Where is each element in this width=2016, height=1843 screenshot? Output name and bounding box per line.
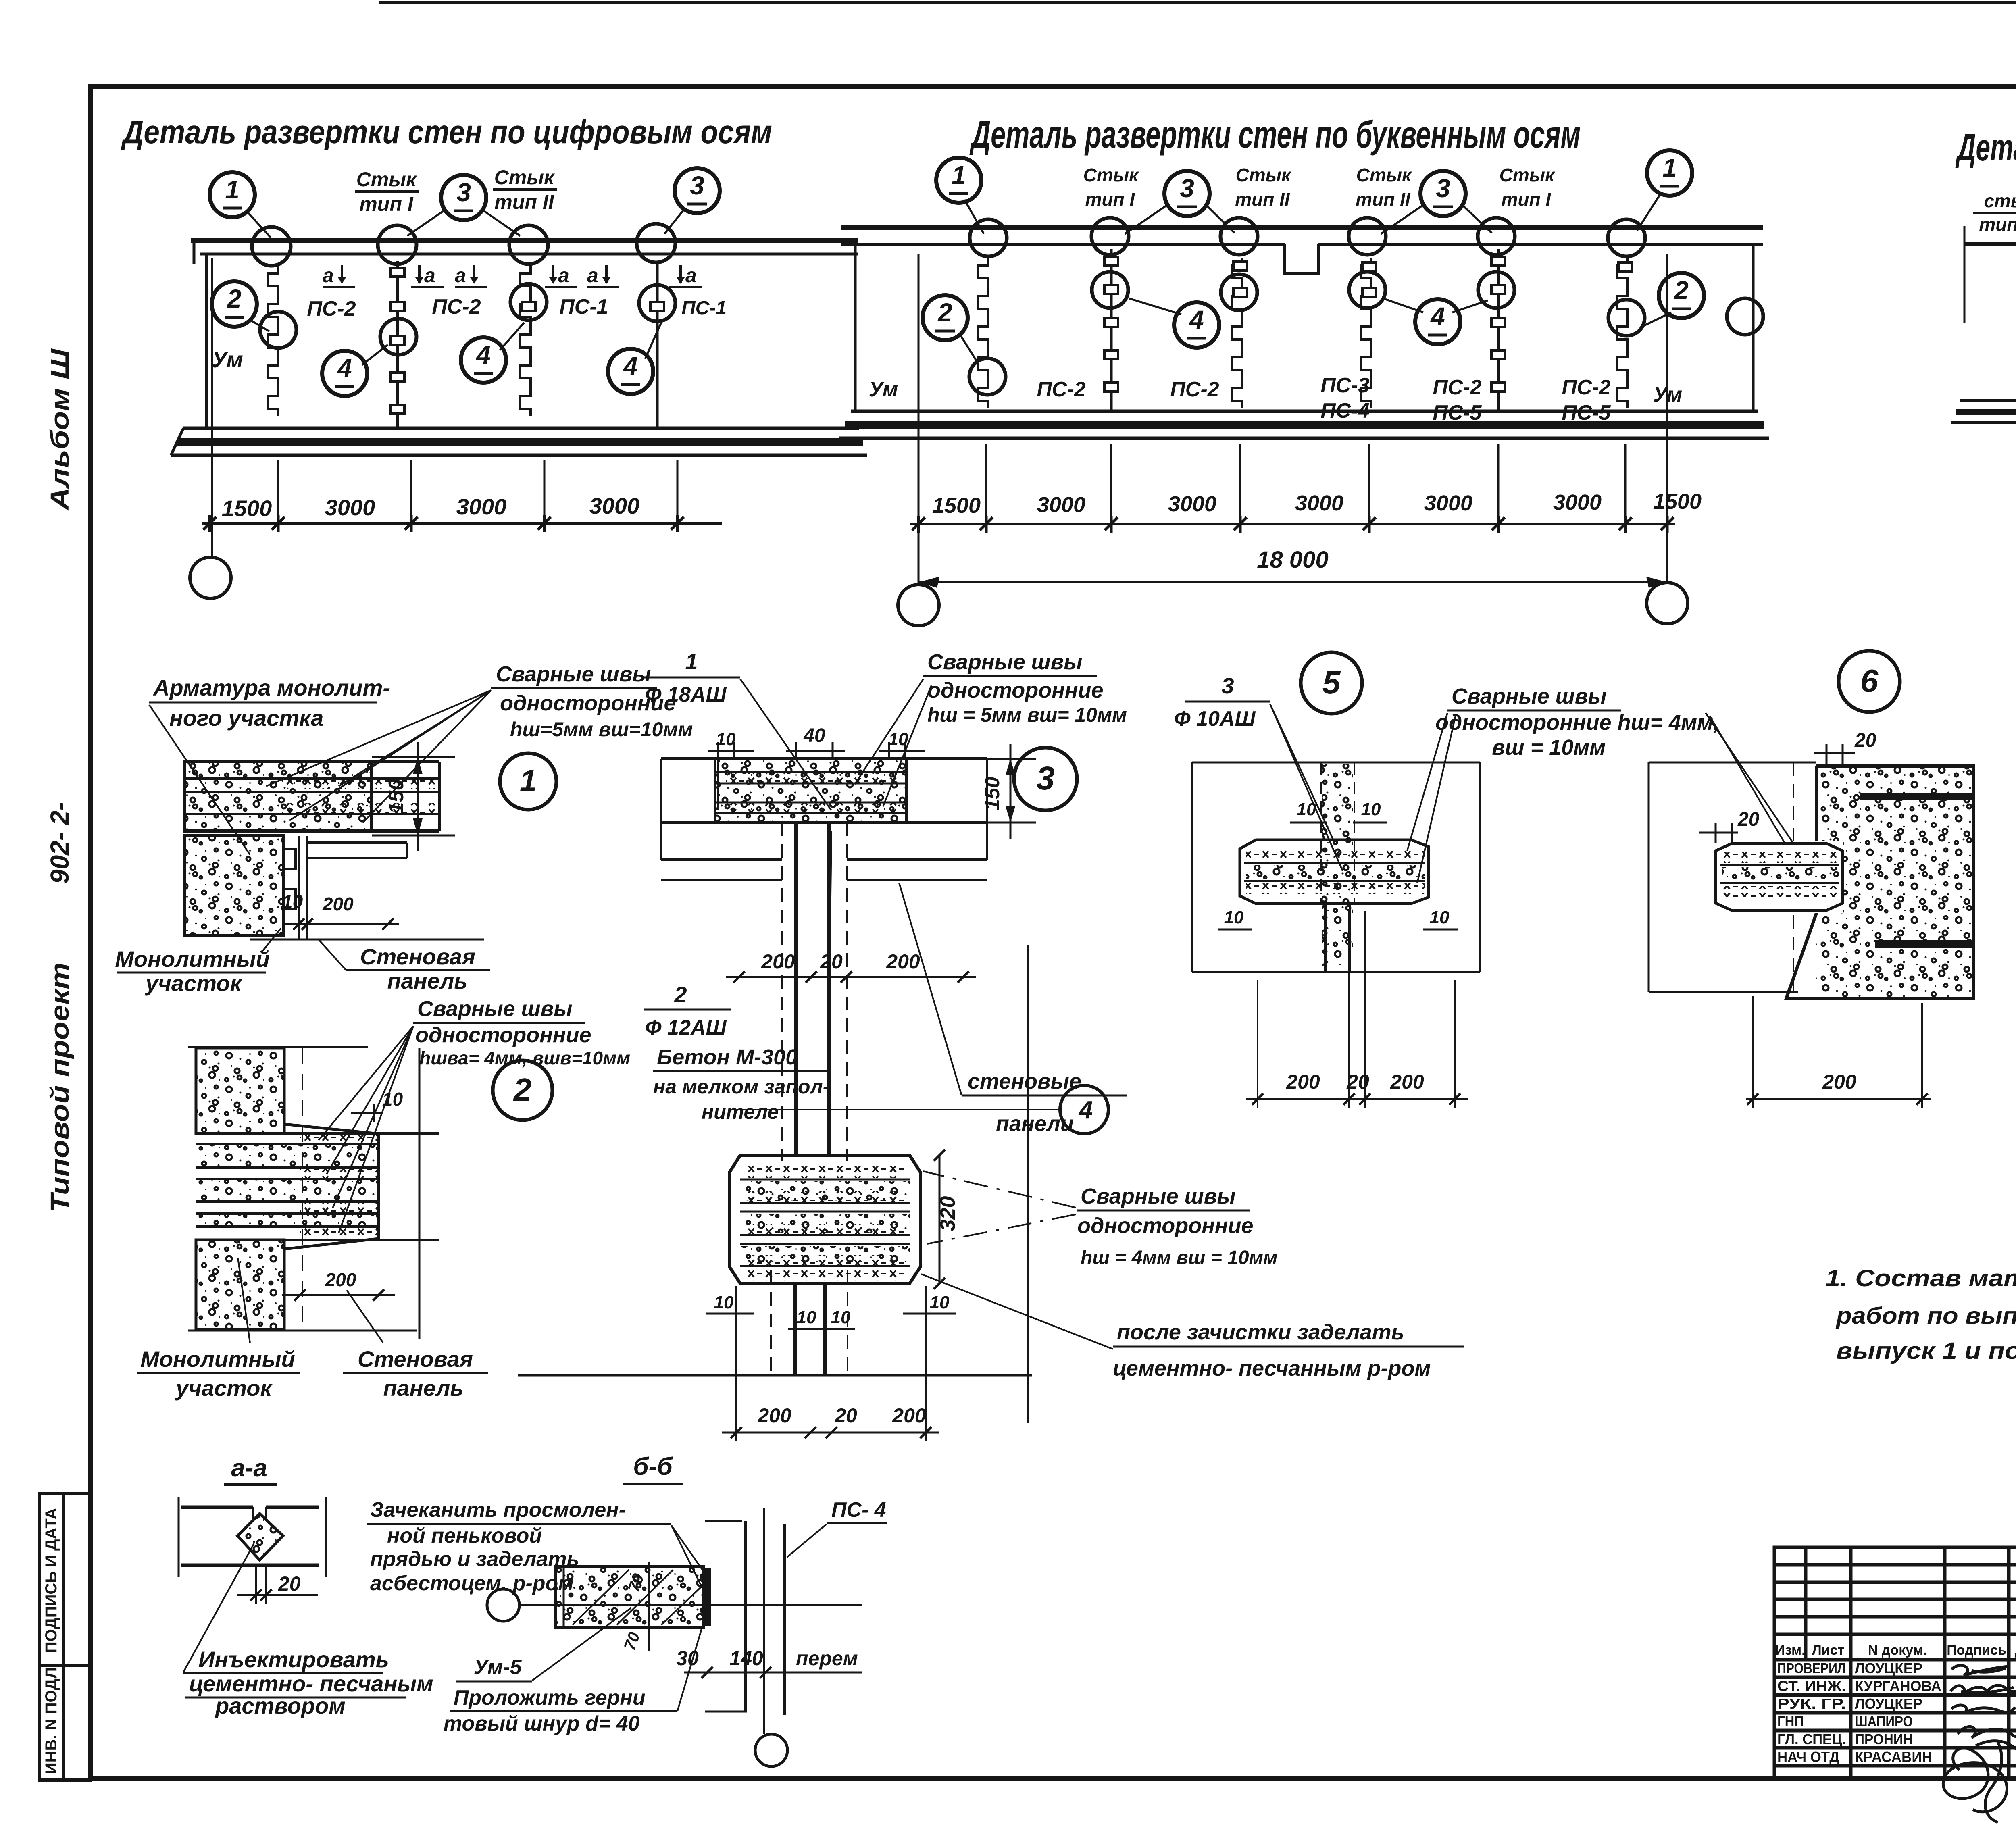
floor slab concrete bbox=[184, 762, 439, 831]
svg-text:раствором: раствором bbox=[215, 1693, 346, 1718]
svg-text:цементно- песчаным: цементно- песчаным bbox=[189, 1671, 433, 1696]
label стык тип I bbox=[355, 168, 419, 215]
svg-text:ПС-2: ПС-2 bbox=[307, 297, 356, 321]
svg-text:2: 2 bbox=[674, 982, 687, 1007]
caulk note bbox=[367, 1498, 671, 1595]
svg-text:на мелком запол-: на мелком запол- bbox=[653, 1075, 829, 1098]
axis line 1 bbox=[211, 258, 213, 557]
svg-text:200: 200 bbox=[757, 1404, 791, 1427]
left margin stamp boxes bbox=[40, 1494, 91, 1780]
panel seam 1 toothed bbox=[268, 266, 278, 416]
svg-text:20: 20 bbox=[834, 1404, 857, 1427]
label armatura bbox=[149, 675, 390, 731]
svg-text:10: 10 bbox=[930, 1293, 950, 1312]
monolith column bbox=[188, 1046, 368, 1048]
beam notch bbox=[1285, 244, 1318, 273]
svg-text:1: 1 bbox=[520, 764, 537, 798]
svg-text:ПРОНИН: ПРОНИН bbox=[1855, 1731, 1913, 1747]
svg-text:нителе: нителе bbox=[702, 1101, 779, 1123]
panel seam 2 with weld plates bbox=[396, 261, 399, 428]
axis bubble 2 bbox=[212, 281, 269, 331]
svg-text:4: 4 bbox=[1189, 305, 1204, 334]
left wall edge bbox=[854, 244, 857, 411]
joint callout circles bbox=[252, 224, 675, 355]
weld label bbox=[923, 650, 1127, 726]
svg-text:односторонние: односторонние bbox=[927, 678, 1104, 702]
labels below bbox=[115, 928, 281, 996]
svg-text:a: a bbox=[455, 264, 466, 287]
svg-text:КУРГАНОВА: КУРГАНОВА bbox=[1855, 1678, 1941, 1694]
gernit note bbox=[444, 1629, 702, 1735]
dim 150 right bbox=[987, 744, 1036, 839]
svg-text:Альбом Ш: Альбом Ш bbox=[45, 348, 74, 511]
axis bubble 4 a bbox=[322, 345, 388, 396]
svg-text:ПС- 4: ПС- 4 bbox=[831, 1498, 886, 1522]
svg-text:ПС-4: ПС-4 bbox=[1320, 399, 1369, 423]
svg-text:a: a bbox=[685, 264, 697, 287]
svg-text:КРАСАВИН: КРАСАВИН bbox=[1855, 1749, 1932, 1765]
svg-text:Сварные швы: Сварные швы bbox=[496, 662, 651, 686]
svg-text:3: 3 bbox=[456, 178, 471, 207]
svg-text:4: 4 bbox=[1078, 1096, 1093, 1124]
svg-text:СТ. ИНЖ.: СТ. ИНЖ. bbox=[1777, 1678, 1846, 1694]
wall panel trapezoid bbox=[284, 1124, 379, 1134]
seam C toothed bbox=[1232, 258, 1242, 408]
top beam bbox=[841, 225, 1763, 230]
svg-text:Ф 12АШ: Ф 12АШ bbox=[645, 1016, 727, 1039]
svg-text:10: 10 bbox=[282, 891, 303, 912]
svg-text:3: 3 bbox=[1221, 673, 1234, 698]
svg-text:hш=5мм вш=10мм: hш=5мм вш=10мм bbox=[510, 718, 693, 741]
svg-text:3: 3 bbox=[1436, 174, 1450, 203]
seam A toothed bbox=[978, 258, 988, 408]
svg-text:стеновые: стеновые bbox=[968, 1069, 1081, 1093]
svg-text:цементно- песчанным р-ром: цементно- песчанным р-ром bbox=[1113, 1356, 1431, 1381]
axis bubble 1 bbox=[210, 172, 271, 238]
svg-text:Ф 18АШ: Ф 18АШ bbox=[645, 683, 727, 706]
dimension line bbox=[202, 522, 722, 525]
svg-text:3000: 3000 bbox=[1553, 490, 1602, 514]
svg-text:асбестоцем. р-ром: асбестоцем. р-ром bbox=[370, 1572, 574, 1595]
seam B plates bbox=[1110, 249, 1113, 411]
label стык тип II bbox=[493, 166, 557, 213]
svg-text:ЛОУЦКЕР: ЛОУЦКЕР bbox=[1855, 1660, 1922, 1676]
svg-text:20: 20 bbox=[1737, 809, 1760, 830]
svg-text:Сварные швы: Сварные швы bbox=[1452, 684, 1606, 708]
svg-text:40: 40 bbox=[803, 725, 825, 746]
detail number circle 6 bbox=[1839, 651, 1900, 712]
svg-text:б-б: б-б bbox=[633, 1453, 673, 1481]
svg-text:ЛОУЦКЕР: ЛОУЦКЕР bbox=[1855, 1695, 1922, 1712]
svg-text:10: 10 bbox=[1361, 800, 1381, 819]
svg-text:Деталь развертки перегородок: Деталь развертки перегородок bbox=[1955, 126, 2016, 169]
svg-text:10: 10 bbox=[1297, 800, 1316, 819]
svg-text:вш = 10мм: вш = 10мм bbox=[1492, 735, 1606, 760]
svg-text:140: 140 bbox=[729, 1647, 763, 1670]
svg-text:hш = 5мм вш= 10мм: hш = 5мм вш= 10мм bbox=[927, 704, 1127, 726]
svg-text:Стеновая: Стеновая bbox=[358, 1346, 473, 1372]
svg-text:Ум-5: Ум-5 bbox=[474, 1656, 522, 1679]
svg-text:после зачистки заделать: после зачистки заделать bbox=[1117, 1320, 1404, 1344]
svg-text:прядью и заделать: прядью и заделать bbox=[370, 1547, 579, 1571]
svg-text:односторонние: односторонние bbox=[415, 1023, 591, 1047]
svg-text:ПС-2: ПС-2 bbox=[1562, 376, 1610, 399]
svg-text:Зачеканить просмолен-: Зачеканить просмолен- bbox=[370, 1498, 626, 1522]
weld label bbox=[413, 997, 630, 1068]
svg-text:ШАПИРО: ШАПИРО bbox=[1855, 1713, 1913, 1730]
svg-text:320: 320 bbox=[936, 1196, 960, 1231]
svg-text:односторонние hш= 4мм,: односторонние hш= 4мм, bbox=[1435, 710, 1719, 735]
total dimension bbox=[918, 581, 1667, 583]
dimension line 1 bbox=[910, 523, 1675, 525]
surround outline bbox=[1649, 762, 1816, 764]
axis bubble 3 right bbox=[664, 168, 720, 234]
svg-text:3: 3 bbox=[1180, 174, 1194, 203]
svg-text:10: 10 bbox=[714, 1293, 734, 1312]
surround outline bbox=[1192, 762, 1480, 764]
svg-text:6: 6 bbox=[1860, 663, 1879, 699]
svg-text:тип IV: тип IV bbox=[1979, 214, 2016, 235]
svg-text:902- 2-: 902- 2- bbox=[45, 802, 74, 884]
svg-text:200: 200 bbox=[761, 950, 795, 973]
svg-text:1: 1 bbox=[685, 649, 698, 674]
svg-text:ПС-5: ПС-5 bbox=[1562, 401, 1611, 425]
label weld seams bbox=[491, 662, 693, 741]
cleanup note bbox=[1113, 1320, 1464, 1381]
wall top line bbox=[1964, 242, 2016, 246]
svg-text:Ум: Ум bbox=[1653, 383, 1682, 406]
svg-text:Стык: Стык bbox=[1356, 165, 1412, 185]
wall panel PS-4 bbox=[744, 1521, 747, 1712]
body bbox=[729, 1155, 921, 1283]
svg-text:2: 2 bbox=[937, 298, 952, 327]
detail number circle 2 bbox=[493, 1060, 552, 1120]
svg-text:Стык: Стык bbox=[494, 166, 555, 189]
svg-text:работ по выполнению стыков: работ по выполнению стыков см. серию 3.9… bbox=[1835, 1303, 2016, 1329]
slab outline bbox=[661, 757, 987, 760]
svg-text:10: 10 bbox=[382, 1089, 403, 1110]
svg-text:ПС-5: ПС-5 bbox=[1433, 401, 1482, 425]
label wall panels bbox=[899, 883, 1127, 1136]
svg-text:товый шнур d= 40: товый шнур d= 40 bbox=[444, 1712, 640, 1735]
detail number circle 5 bbox=[1301, 652, 1362, 714]
svg-text:1500: 1500 bbox=[1653, 489, 1702, 514]
svg-text:5: 5 bbox=[1322, 664, 1341, 700]
bottom axis circle bbox=[755, 1734, 787, 1766]
section marks a bbox=[323, 264, 702, 287]
panel bars bbox=[181, 1506, 253, 1509]
labels below bbox=[137, 1258, 300, 1401]
label beton bbox=[653, 831, 831, 1123]
lower slab lines bbox=[661, 858, 782, 861]
svg-text:Сварные швы: Сварные швы bbox=[1081, 1184, 1235, 1208]
svg-text:Ф 10АШ: Ф 10АШ bbox=[1174, 707, 1256, 731]
svg-text:тип II: тип II bbox=[494, 191, 554, 213]
svg-text:Стык: Стык bbox=[1083, 165, 1139, 185]
svg-text:Деталь развертки стен по ц: Деталь развертки стен по цифровым осям bbox=[121, 114, 772, 150]
callout circle right bbox=[1060, 1085, 1108, 1134]
stem bbox=[794, 823, 798, 1155]
seam D toothed with plates bbox=[1361, 258, 1371, 408]
svg-text:10: 10 bbox=[1430, 908, 1450, 927]
top beam bbox=[191, 238, 858, 243]
svg-text:hш = 4мм вш = 10мм: hш = 4мм вш = 10мм bbox=[1081, 1247, 1278, 1268]
dim 150 bbox=[372, 742, 455, 851]
left edge bbox=[1964, 226, 1966, 323]
weld leader fan bbox=[149, 690, 491, 855]
svg-text:Типовой проект: Типовой проект bbox=[45, 962, 74, 1212]
svg-text:Стеновая: Стеновая bbox=[360, 944, 475, 969]
signatures bbox=[1943, 1665, 2016, 1822]
svg-text:1500: 1500 bbox=[932, 494, 981, 518]
svg-text:ИНВ. N ПОДЛ.: ИНВ. N ПОДЛ. bbox=[42, 1663, 60, 1774]
sheet top edge scan line bbox=[379, 1, 2016, 4]
svg-text:НАЧ ОТД: НАЧ ОТД bbox=[1777, 1749, 1839, 1765]
wall panel joint lines bbox=[298, 836, 300, 939]
right wall edge bbox=[1752, 244, 1755, 411]
svg-text:2: 2 bbox=[1674, 276, 1689, 305]
svg-text:Сварные швы: Сварные швы bbox=[417, 997, 572, 1021]
weld label bbox=[1435, 684, 1719, 760]
svg-text:3: 3 bbox=[1036, 760, 1055, 797]
seam E plates bbox=[1497, 249, 1500, 411]
svg-text:Изм.: Изм. bbox=[1775, 1643, 1805, 1658]
bottom axis circle bbox=[190, 557, 231, 598]
stem concrete bbox=[1322, 764, 1353, 966]
detail number circle 1 bbox=[500, 753, 556, 810]
svg-text:ПС-1: ПС-1 bbox=[681, 298, 727, 319]
svg-text:4: 4 bbox=[337, 354, 352, 383]
svg-text:односторонние: односторонние bbox=[1077, 1214, 1254, 1238]
svg-text:тип I: тип I bbox=[1502, 189, 1552, 210]
callout circles bbox=[969, 218, 1763, 395]
panel seam 3 toothed with plates bbox=[520, 266, 531, 416]
pos 2 rebar label bbox=[644, 982, 731, 1039]
svg-text:4: 4 bbox=[475, 340, 491, 369]
svg-text:3000: 3000 bbox=[456, 494, 507, 519]
svg-text:200: 200 bbox=[325, 1269, 356, 1290]
Um-5 label bbox=[456, 1608, 631, 1681]
svg-text:3000: 3000 bbox=[589, 493, 640, 519]
svg-text:150: 150 bbox=[385, 779, 408, 814]
svg-text:панель: панель bbox=[387, 968, 467, 993]
svg-text:1: 1 bbox=[952, 160, 966, 190]
svg-text:hшва= 4мм, вшв=10мм: hшва= 4мм, вшв=10мм bbox=[419, 1047, 630, 1068]
svg-text:ПС-2: ПС-2 bbox=[1037, 378, 1085, 401]
стык тип IV left bbox=[1973, 190, 2016, 235]
svg-text:тип I: тип I bbox=[1085, 189, 1135, 210]
svg-text:Дата: Дата bbox=[2015, 1643, 2016, 1658]
svg-text:тип II: тип II bbox=[1235, 189, 1290, 210]
joint gap bbox=[252, 1507, 254, 1521]
svg-text:200: 200 bbox=[322, 893, 354, 914]
svg-text:Монолитный: Монолитный bbox=[115, 946, 270, 972]
svg-text:Стык: Стык bbox=[1236, 165, 1292, 185]
axis verticals bbox=[918, 254, 920, 585]
big concrete block bbox=[1816, 766, 1973, 999]
svg-text:20: 20 bbox=[278, 1572, 301, 1595]
svg-text:a: a bbox=[424, 264, 435, 287]
svg-text:ГЛ. СПЕЦ.: ГЛ. СПЕЦ. bbox=[1777, 1731, 1846, 1747]
svg-text:а-а: а-а bbox=[231, 1454, 267, 1482]
grout diamond bbox=[237, 1514, 283, 1560]
svg-text:Инъектировать: Инъектировать bbox=[198, 1647, 389, 1672]
svg-text:200: 200 bbox=[1822, 1070, 1856, 1093]
svg-text:200: 200 bbox=[1286, 1070, 1320, 1093]
svg-text:Проложить герни: Проложить герни bbox=[454, 1686, 646, 1710]
base slab bbox=[851, 410, 1758, 413]
svg-text:3000: 3000 bbox=[1295, 491, 1343, 515]
svg-text:4: 4 bbox=[1430, 302, 1445, 331]
svg-text:ГНП: ГНП bbox=[1777, 1713, 1804, 1730]
label bbox=[183, 1647, 433, 1718]
floor reference line bbox=[518, 1374, 1032, 1377]
leader line from pos2 label to circle bbox=[732, 1109, 1060, 1110]
svg-text:10: 10 bbox=[831, 1308, 851, 1327]
svg-text:Лист: Лист bbox=[1812, 1643, 1844, 1658]
left wall edge bbox=[205, 254, 208, 428]
svg-text:3000: 3000 bbox=[325, 495, 375, 520]
svg-text:10: 10 bbox=[1224, 908, 1244, 927]
svg-text:ПС-1: ПС-1 bbox=[559, 295, 608, 319]
axis bubbles bbox=[936, 158, 984, 234]
svg-text:ПОДПИСЬ И ДАТА: ПОДПИСЬ И ДАТА bbox=[42, 1508, 60, 1653]
svg-text:200: 200 bbox=[892, 1404, 926, 1427]
axis bubble 3 mid bbox=[407, 175, 520, 236]
svg-text:панель: панель bbox=[383, 1375, 463, 1401]
svg-text:Арматура монолит-: Арматура монолит- bbox=[152, 675, 390, 700]
lens panel bbox=[1716, 843, 1843, 910]
svg-text:3: 3 bbox=[690, 171, 704, 200]
bottom axis circles bbox=[898, 585, 939, 626]
svg-text:200: 200 bbox=[1390, 1070, 1424, 1093]
svg-text:перем: перем bbox=[796, 1647, 858, 1670]
base slab bbox=[183, 427, 859, 430]
dim 320 bbox=[939, 1155, 941, 1283]
pos 3 rebar label bbox=[1174, 673, 1270, 731]
svg-text:20: 20 bbox=[820, 950, 843, 973]
svg-text:ного участка: ного участка bbox=[169, 705, 323, 731]
svg-text:1. Состав материалов и: 1. Состав материалов и методы производст… bbox=[1825, 1265, 2016, 1291]
svg-text:ПС-2: ПС-2 bbox=[432, 295, 481, 319]
svg-text:4: 4 bbox=[623, 352, 638, 381]
svg-text:РУК. ГР.: РУК. ГР. bbox=[1777, 1695, 1846, 1712]
svg-text:ПС-3: ПС-3 bbox=[1320, 374, 1369, 397]
svg-text:ПРОВЕРИЛ: ПРОВЕРИЛ bbox=[1777, 1660, 1846, 1676]
svg-text:150: 150 bbox=[981, 777, 1004, 810]
bottom stem bbox=[793, 1283, 797, 1375]
svg-text:Сварные швы: Сварные швы bbox=[927, 650, 1082, 674]
svg-text:участок: участок bbox=[175, 1375, 273, 1401]
svg-text:Деталь развертки стен по: Деталь развертки стен по буквенным осям bbox=[969, 113, 1581, 156]
svg-text:a: a bbox=[323, 264, 334, 287]
svg-text:Бетон М-300: Бетон М-300 bbox=[657, 1045, 798, 1069]
base slab bbox=[1960, 399, 2016, 402]
axis bubble 4 b bbox=[461, 323, 524, 383]
svg-text:Монолитный: Монолитный bbox=[140, 1346, 295, 1372]
svg-text:Ум: Ум bbox=[212, 347, 243, 372]
svg-text:2: 2 bbox=[513, 1072, 532, 1108]
pos 1 rebar label bbox=[644, 649, 740, 706]
svg-text:3000: 3000 bbox=[1168, 492, 1216, 516]
caulk strip bbox=[702, 1568, 711, 1626]
svg-text:тип II: тип II bbox=[1356, 189, 1411, 210]
lens panel bbox=[1240, 840, 1429, 904]
svg-text:Ум: Ум bbox=[869, 378, 898, 401]
svg-text:20: 20 bbox=[1854, 730, 1876, 751]
right region boundary bbox=[1027, 945, 1029, 1423]
svg-text:3000: 3000 bbox=[1424, 491, 1472, 515]
svg-text:1500: 1500 bbox=[222, 496, 272, 521]
svg-text:Стык: Стык bbox=[356, 168, 417, 191]
svg-text:ПС-2: ПС-2 bbox=[1170, 378, 1219, 401]
svg-text:ной пеньковой: ной пеньковой bbox=[387, 1524, 542, 1547]
svg-text:Стык: Стык bbox=[1500, 165, 1556, 185]
wall monolith bbox=[184, 836, 296, 935]
weld label right bbox=[1077, 1184, 1278, 1268]
PS-4 label bbox=[787, 1498, 887, 1557]
svg-text:3000: 3000 bbox=[1037, 493, 1085, 517]
svg-text:тип I: тип I bbox=[359, 193, 413, 215]
partition bar Um-5 bbox=[555, 1567, 704, 1628]
svg-text:стык: стык bbox=[1984, 190, 2016, 211]
axis bubble 4 c bbox=[608, 323, 661, 394]
left circle bbox=[487, 1589, 519, 1621]
panel seam 4 with plates bbox=[656, 261, 659, 428]
svg-text:2: 2 bbox=[227, 284, 242, 313]
svg-text:18 000: 18 000 bbox=[1257, 547, 1328, 573]
svg-text:ПС-2: ПС-2 bbox=[1433, 376, 1481, 399]
svg-text:1: 1 bbox=[1662, 153, 1677, 182]
svg-text:a: a bbox=[587, 264, 598, 287]
svg-text:участок: участок bbox=[144, 970, 242, 996]
seam F toothed bbox=[1617, 258, 1627, 408]
svg-text:N докум.: N докум. bbox=[1868, 1643, 1927, 1658]
svg-text:выпуск 1 и пояснительную з: выпуск 1 и пояснительную записку. bbox=[1836, 1338, 2016, 1364]
slab concrete bbox=[715, 760, 906, 822]
стык labels bbox=[1083, 165, 1139, 210]
svg-text:10: 10 bbox=[797, 1308, 816, 1327]
svg-text:1: 1 bbox=[225, 175, 240, 204]
svg-text:a: a bbox=[558, 264, 569, 287]
detail number circle 3 bbox=[1014, 748, 1077, 810]
svg-text:Подпись: Подпись bbox=[1947, 1643, 2006, 1658]
joint band lines bbox=[196, 1133, 439, 1240]
svg-text:200: 200 bbox=[886, 950, 920, 973]
